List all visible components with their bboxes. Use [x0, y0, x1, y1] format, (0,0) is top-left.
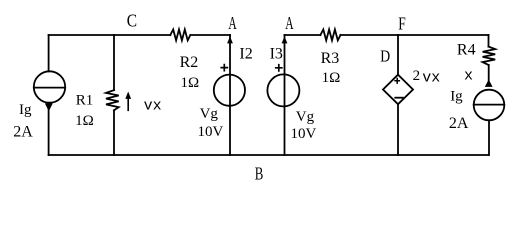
resistor R3 zigzag [320, 30, 340, 41]
dependent source diamond 2vx [383, 75, 413, 105]
wire branch C upper [113, 35, 115, 90]
wire top left loop [49, 34, 230, 36]
svg-text:2A: 2A [449, 115, 469, 132]
current source Ig left circle [34, 71, 65, 102]
svg-text:F: F [398, 13, 406, 33]
wire top right loop [285, 34, 489, 36]
svg-text:10V: 10V [291, 126, 317, 142]
arrowhead Ig left (down) [45, 103, 53, 111]
wire left branch upper [48, 35, 50, 71]
resistor R1 zigzag [106, 90, 119, 110]
svg-text:Ig: Ig [19, 102, 32, 118]
svg-text:C: C [127, 10, 137, 30]
wire branch D lower [397, 104, 399, 155]
resistor R2 zigzag [170, 30, 190, 41]
svg-text:R4: R4 [457, 41, 476, 58]
svg-text:I3: I3 [270, 45, 283, 62]
svg-text:1Ω: 1Ω [322, 70, 341, 86]
svg-text:Ig: Ig [450, 88, 463, 104]
svg-text:vx: vx [144, 97, 162, 114]
svg-text:1Ω: 1Ω [181, 75, 200, 91]
svg-text:B: B [255, 163, 264, 183]
wire right branch upper [488, 35, 490, 47]
current source Ig right circle [474, 90, 505, 121]
wire branch C lower [113, 110, 115, 155]
svg-text:A: A [228, 13, 236, 33]
current source Ig left chord [34, 87, 65, 89]
svg-text:2: 2 [413, 68, 421, 84]
wire branch Vg2 [284, 35, 286, 155]
voltage source Vg2 circle [267, 74, 299, 106]
svg-text:2A: 2A [13, 123, 33, 140]
arrowhead I2 (up) [227, 36, 233, 43]
wire right branch mid [488, 65, 490, 81]
wire left branch lower [48, 103, 50, 155]
svg-text:R2: R2 [180, 54, 199, 71]
resistor R4 zigzag [483, 47, 496, 65]
svg-text:R1: R1 [76, 92, 94, 108]
plus sign diamond [394, 78, 400, 84]
arrowhead vx (up) [125, 92, 131, 99]
svg-text:R3: R3 [321, 50, 340, 67]
minus sign inside diamond [395, 97, 403, 99]
wire bottom node B [49, 154, 489, 156]
svg-text:vx: vx [422, 69, 440, 86]
svg-text:Vg: Vg [200, 106, 219, 122]
voltage source Vg1 circle [214, 75, 245, 106]
svg-text:A: A [285, 13, 293, 33]
arrowhead Ig right (up) [485, 80, 493, 87]
current source Ig right chord [474, 104, 505, 106]
svg-text:10V: 10V [198, 124, 224, 140]
plus sign Vg2 [275, 64, 283, 72]
svg-text:x: x [464, 68, 473, 85]
wire branch D upper [397, 35, 399, 75]
svg-text:D: D [380, 46, 390, 65]
plus sign Vg1 [220, 64, 228, 72]
svg-text:1Ω: 1Ω [75, 113, 94, 129]
vx polarity arrow stem [127, 99, 129, 111]
svg-text:Vg: Vg [296, 109, 315, 125]
svg-text:I2: I2 [239, 45, 252, 62]
arrowhead I3 (up) [282, 36, 288, 43]
wire right branch lower [488, 120, 490, 155]
wire branch Vg1 [229, 35, 231, 155]
